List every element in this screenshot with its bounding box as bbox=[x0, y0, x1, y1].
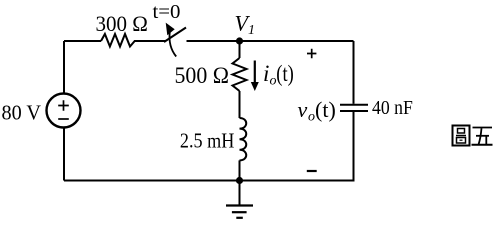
svg-text:o: o bbox=[308, 110, 315, 125]
svg-text:40 nF: 40 nF bbox=[372, 97, 413, 119]
svg-text:500 Ω: 500 Ω bbox=[175, 63, 230, 88]
svg-text:(t): (t) bbox=[315, 97, 336, 122]
svg-text:v: v bbox=[298, 97, 308, 122]
svg-text:80 V: 80 V bbox=[2, 101, 42, 125]
svg-text:300 Ω: 300 Ω bbox=[96, 11, 148, 36]
svg-text:i: i bbox=[263, 61, 269, 86]
svg-text:2.5 mH: 2.5 mH bbox=[180, 129, 234, 153]
svg-text:(t): (t) bbox=[276, 61, 294, 86]
svg-text:t=0: t=0 bbox=[153, 1, 181, 23]
svg-text:1: 1 bbox=[248, 23, 255, 38]
